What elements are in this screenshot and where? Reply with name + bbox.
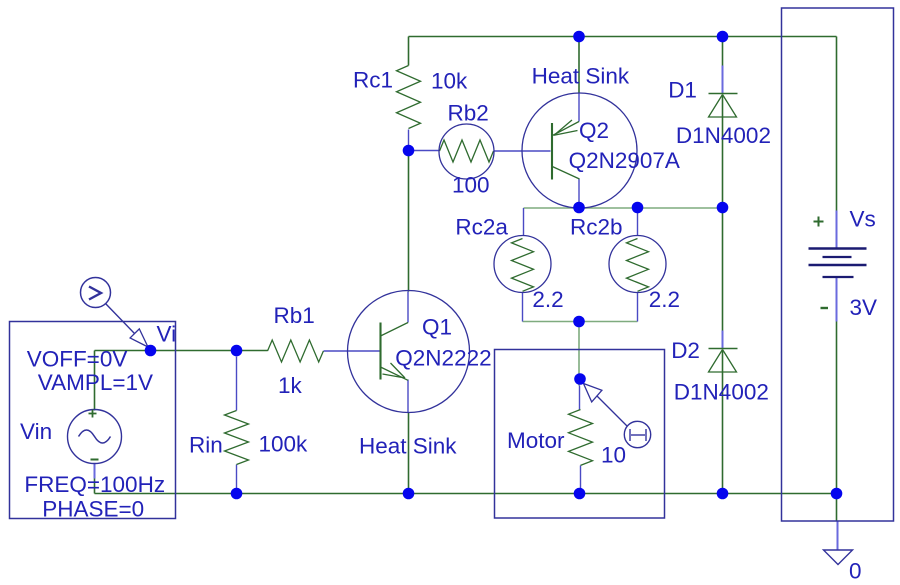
current probe line bbox=[597, 396, 628, 427]
source Vin circle bbox=[68, 410, 122, 464]
junction D2 bottom bbox=[717, 488, 729, 500]
transistor Q2 body bbox=[552, 120, 580, 180]
junction node Vi bbox=[145, 345, 157, 357]
junction Rc2 bottom bbox=[573, 316, 585, 328]
pin Rc2a bottom bbox=[522, 293, 524, 322]
wire D1 top lead bbox=[722, 37, 724, 66]
pin motor resistor bottom bbox=[580, 466, 582, 489]
wire Rc2a top connector bbox=[524, 207, 580, 209]
transistor Q1 heat sink circle bbox=[348, 291, 470, 413]
junction Q2 collector bbox=[573, 202, 585, 214]
pin Vin bottom lead bbox=[94, 464, 96, 479]
diode D1 bbox=[709, 94, 738, 118]
pin Rc2a top bbox=[523, 208, 525, 236]
svg-text:Q2: Q2 bbox=[579, 118, 609, 143]
battery minus mark bbox=[821, 307, 829, 309]
svg-text:0: 0 bbox=[849, 558, 862, 583]
source Vin sine bbox=[79, 430, 111, 443]
wire battery bottom vertical bbox=[836, 322, 838, 521]
box Vin source bbox=[10, 322, 176, 519]
svg-text:Vin: Vin bbox=[20, 419, 52, 444]
battery plus mark bbox=[814, 217, 824, 227]
wire mid rail Vin to Rb1 bbox=[95, 350, 268, 352]
junction top rail D1 bbox=[717, 31, 729, 43]
junction Rin bottom bbox=[231, 488, 243, 500]
svg-text:2.2: 2.2 bbox=[649, 287, 680, 312]
transistor Q1 body bbox=[381, 323, 409, 381]
voltage probe chevron bbox=[89, 287, 101, 300]
svg-text:D1: D1 bbox=[668, 77, 697, 102]
wire battery top vertical bbox=[836, 37, 838, 211]
wire Q2 collector rail bbox=[579, 207, 723, 209]
wire Q2 emitter to top rail bbox=[578, 37, 580, 94]
battery Vs bbox=[809, 249, 867, 278]
svg-text:Vs: Vs bbox=[850, 207, 876, 232]
diode D2 bbox=[709, 349, 738, 373]
junction Rc1 bottom bbox=[403, 145, 415, 157]
pin battery plus lead bbox=[836, 211, 838, 249]
pin battery minus lead bbox=[836, 278, 838, 322]
svg-text:1k: 1k bbox=[278, 373, 303, 398]
resistor Rc2a zigzag bbox=[512, 239, 534, 292]
box Motor bbox=[495, 350, 665, 519]
current probe I glyph bbox=[630, 429, 646, 441]
resistor Rc2b zigzag bbox=[627, 239, 649, 292]
transistor Q2 heat sink circle bbox=[522, 93, 637, 208]
junction Q1 emitter bottom bbox=[403, 488, 415, 500]
svg-text:Rin: Rin bbox=[189, 432, 223, 457]
wire Rc1 top lead bbox=[408, 37, 410, 66]
wire top rail bbox=[409, 36, 837, 38]
svg-text:Motor: Motor bbox=[507, 428, 565, 453]
wire D1 through triangle bbox=[722, 95, 724, 117]
resistor Rin bbox=[225, 411, 249, 465]
svg-text:VAMPL=1V: VAMPL=1V bbox=[38, 370, 153, 395]
voltage probe line bbox=[106, 304, 135, 334]
ground symbol 0 bbox=[824, 550, 853, 565]
pin Q1 emitter stub bbox=[407, 380, 409, 413]
wire Rc2 bottom connector bbox=[523, 321, 638, 323]
pin node to Rb2 bbox=[409, 150, 440, 152]
svg-text:100k: 100k bbox=[259, 432, 309, 457]
svg-text:Rc2b: Rc2b bbox=[570, 215, 623, 240]
svg-text:D2: D2 bbox=[671, 338, 700, 363]
wire motor feed bbox=[578, 322, 580, 386]
resistor Rb2 zigzag bbox=[440, 140, 494, 162]
pin Q2 collector stub bbox=[578, 179, 580, 208]
pin Rc2b bottom bbox=[637, 293, 639, 322]
pin ground stem bbox=[837, 522, 839, 550]
svg-text:Heat Sink: Heat Sink bbox=[532, 64, 630, 89]
svg-text:Vi: Vi bbox=[157, 322, 177, 347]
svg-text:D1N4002: D1N4002 bbox=[674, 380, 769, 405]
resistor Rb2 circle bbox=[439, 124, 494, 179]
pin Rin top bbox=[236, 357, 238, 411]
junction motor bottom bbox=[574, 488, 586, 500]
resistor Rc1 bbox=[397, 66, 421, 129]
pin D2 cathode lead bbox=[722, 331, 724, 349]
svg-text:Rc2a: Rc2a bbox=[455, 215, 508, 240]
current probe arrowhead bbox=[584, 384, 602, 402]
wire Vin top vertical bbox=[94, 351, 96, 411]
junction D1 D2 bbox=[717, 202, 729, 214]
junction top rail Q2 bbox=[573, 31, 585, 43]
svg-text:Q2N2907A: Q2N2907A bbox=[569, 148, 680, 173]
wire Vin bottom vertical bbox=[94, 479, 96, 494]
resistor Rc2a circle bbox=[494, 236, 551, 293]
box Vs battery bbox=[782, 8, 894, 521]
pin Rin bottom bbox=[236, 465, 238, 489]
svg-text:Q1: Q1 bbox=[422, 314, 452, 339]
resistor Motor 10 bbox=[569, 410, 593, 466]
svg-text:Q2N2222: Q2N2222 bbox=[395, 346, 491, 371]
pin Rc2b top bbox=[637, 208, 639, 236]
voltage probe Vi circle bbox=[81, 278, 111, 308]
junction motor top bbox=[574, 373, 586, 385]
svg-text:Rc1: Rc1 bbox=[353, 67, 393, 92]
source Vin plus mark bbox=[89, 410, 97, 418]
svg-text:Rb1: Rb1 bbox=[274, 303, 315, 328]
svg-text:3V: 3V bbox=[850, 295, 878, 320]
resistor Rc2b circle bbox=[609, 236, 666, 293]
source Vin minus mark bbox=[91, 459, 99, 461]
wire Rc1 to Q1 collector bbox=[408, 151, 410, 292]
wire D2 to bottom rail bbox=[722, 372, 724, 494]
svg-text:Heat Sink: Heat Sink bbox=[359, 434, 457, 459]
svg-text:10: 10 bbox=[601, 442, 626, 467]
svg-text:Rb2: Rb2 bbox=[448, 101, 489, 126]
junction Rin top bbox=[231, 345, 243, 357]
pin Q1 collector stub bbox=[407, 292, 409, 323]
svg-text:10k: 10k bbox=[431, 68, 468, 93]
wire D2 through triangle bbox=[722, 350, 724, 372]
pin Rc1 bottom bbox=[408, 130, 410, 146]
pin Rb1 to Q1 base bbox=[324, 350, 380, 352]
pin motor resistor top bbox=[579, 386, 581, 410]
pin Rb2 to Q2 base bbox=[494, 150, 551, 152]
voltage probe arrowhead bbox=[130, 329, 148, 347]
svg-text:FREQ=100Hz: FREQ=100Hz bbox=[24, 472, 165, 497]
wire bottom rail bbox=[95, 493, 837, 495]
junction Rc2b top bbox=[632, 202, 644, 214]
svg-text:100: 100 bbox=[452, 172, 490, 197]
pin D1 cathode lead bbox=[722, 66, 724, 94]
wire D1 to D2 bbox=[722, 117, 724, 331]
wire Q1 emitter to bottom rail bbox=[408, 413, 410, 494]
svg-text:2.2: 2.2 bbox=[532, 287, 563, 312]
current probe circle bbox=[624, 421, 650, 447]
svg-text:PHASE=0: PHASE=0 bbox=[42, 497, 144, 522]
svg-text:D1N4002: D1N4002 bbox=[676, 123, 771, 148]
resistor Rb1 bbox=[268, 340, 324, 362]
junction battery bottom bbox=[831, 488, 843, 500]
pin Q2 emitter stub bbox=[578, 94, 580, 122]
svg-text:VOFF=0V: VOFF=0V bbox=[27, 347, 128, 372]
